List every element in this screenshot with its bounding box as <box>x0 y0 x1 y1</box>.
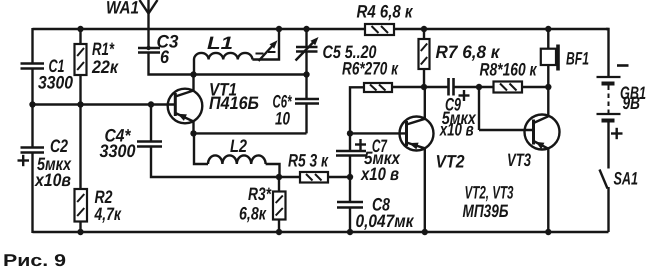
transistor VT3 <box>525 115 560 150</box>
resistor R3 <box>273 192 286 220</box>
wire C4 top lead <box>150 105 152 143</box>
wire R6 right lead / collector node line <box>392 86 449 88</box>
wire VT3 emitter lead <box>547 149 549 233</box>
label R3 6,8k <box>239 184 272 224</box>
label C8 <box>356 195 415 232</box>
inductor L1 <box>194 29 279 75</box>
capacitor C6 <box>295 75 319 134</box>
wire bottom common rail <box>33 231 609 233</box>
wire top supply rail left of R4 <box>33 28 366 30</box>
node VT1 collector <box>190 71 196 77</box>
wire R3 bottom lead <box>278 220 280 234</box>
wire C2 to bottom rail <box>31 153 33 234</box>
value C2 <box>34 154 72 190</box>
svg-text:R8*160 к: R8*160 к <box>480 60 538 80</box>
transistor VT2 <box>400 117 434 151</box>
svg-text:WA1: WA1 <box>106 0 139 18</box>
wire VT1 collector lead <box>192 75 194 91</box>
svg-text:R3*: R3* <box>248 184 272 204</box>
svg-text:0,047мк: 0,047мк <box>356 211 415 231</box>
node C5 top <box>303 26 309 32</box>
node VT2 emitter bottom <box>422 229 428 235</box>
wire R2 top lead <box>79 105 81 190</box>
svg-text:МП39Б: МП39Б <box>463 201 509 221</box>
switch SA1 <box>600 170 608 189</box>
svg-text:4,7к: 4,7к <box>94 204 122 224</box>
minus GB1 is drawn in battery group; label GB1 <box>620 83 646 113</box>
plus C9 <box>459 90 470 101</box>
L1 adjustment arrow <box>259 40 278 61</box>
wire C9 right lead <box>454 86 494 88</box>
node VT3 base top <box>476 84 482 90</box>
antenna WA1 <box>140 0 158 48</box>
wire base bias line <box>33 103 177 105</box>
resistor R8 <box>494 82 523 93</box>
svg-text:VT3: VT3 <box>507 150 531 170</box>
svg-text:VT2, VT3: VT2, VT3 <box>465 183 514 203</box>
wire R1 bottom lead <box>79 75 81 105</box>
capacitor C5 variable <box>296 29 319 75</box>
node R7 top <box>421 26 427 32</box>
capacitor C3 <box>138 48 160 53</box>
node L1 top <box>276 26 282 32</box>
wire VT1 emitter lead <box>192 122 194 134</box>
svg-text:R6*270 к: R6*270 к <box>342 59 399 79</box>
wire switch to bottom rail <box>607 187 609 232</box>
node VT1 emitter <box>190 130 196 136</box>
resistor R5 <box>300 172 328 183</box>
svg-text:3300: 3300 <box>100 141 136 161</box>
wire R6 left lead down to base node <box>350 87 364 133</box>
svg-text:х10 в: х10 в <box>360 164 399 184</box>
label C9 <box>439 95 477 140</box>
svg-text:BF1: BF1 <box>566 49 589 69</box>
capacitor C8 <box>337 202 363 208</box>
wire C1 to C2 <box>31 69 33 149</box>
plus C2 <box>18 155 30 166</box>
wire VT3 base horizontal <box>479 129 534 131</box>
svg-text:SA1: SA1 <box>614 169 639 189</box>
node R1 bottom <box>77 101 83 107</box>
svg-text:х10в: х10в <box>34 170 71 190</box>
label VT1 <box>209 79 259 113</box>
svg-text:П416Б: П416Б <box>209 93 259 113</box>
node BF1 top <box>545 26 551 32</box>
wire top supply rail right of R4 <box>394 28 609 30</box>
svg-text:22к: 22к <box>91 57 119 77</box>
svg-text:R4 6,8 к: R4 6,8 к <box>357 2 414 22</box>
node VT3 collector <box>545 84 551 90</box>
svg-text:3300: 3300 <box>38 73 73 93</box>
wire battery top lead <box>606 29 609 77</box>
wire C3 bottom lead <box>149 53 307 75</box>
capacitor C9 <box>449 78 454 96</box>
wire R1 top lead <box>79 29 81 44</box>
label R2 4,7k <box>94 187 122 224</box>
node R3 top <box>276 174 282 180</box>
node C1 bottom <box>29 101 35 107</box>
label C4 3300 <box>100 126 136 162</box>
resistor R2 <box>75 189 88 222</box>
node R1 top <box>77 26 83 32</box>
wire emitter node line <box>194 132 307 134</box>
label C6 10 <box>273 92 293 129</box>
plus C7 <box>355 139 366 150</box>
wire R5 right lead <box>328 176 350 178</box>
wire C4 bottom lead to node line <box>151 147 300 178</box>
wire C8 bottom lead <box>349 208 351 234</box>
node R5 right <box>347 174 353 180</box>
wire C7 to R5 node <box>349 156 351 178</box>
svg-text:х10 в: х10 в <box>439 119 474 139</box>
svg-text:R5 3 к: R5 3 к <box>288 151 329 171</box>
label VT2 VT3 type <box>463 183 514 222</box>
wire VT3 collector lead <box>547 87 549 116</box>
resistor R4 <box>365 24 394 35</box>
wire R2 bottom lead <box>79 222 81 234</box>
svg-text:9В: 9В <box>623 93 641 113</box>
wire R5 node to C8 <box>349 177 351 203</box>
node C4 top <box>148 101 154 107</box>
node VT2 base <box>347 130 353 136</box>
capacitor C7 <box>336 151 366 156</box>
wire VT2 emitter lead <box>424 148 426 233</box>
wire R8 right lead <box>522 86 548 88</box>
wire BF1 top lead <box>547 29 549 49</box>
svg-text:10: 10 <box>275 109 290 129</box>
capacitor C1 <box>21 64 45 69</box>
wire VT2 collector lead <box>424 87 426 119</box>
wire VT3 base drop <box>478 87 480 130</box>
resistor R7 <box>419 39 430 69</box>
node R3 bottom <box>276 229 282 235</box>
wire battery to switch <box>607 121 609 169</box>
wire R7 bottom lead <box>423 69 425 87</box>
svg-text:L2: L2 <box>230 136 247 156</box>
wire R7 top lead <box>423 29 425 39</box>
capacitor C4 <box>137 142 162 147</box>
capacitor C2 <box>21 148 45 153</box>
L1 adjustable core dashes <box>256 52 276 54</box>
inductor L2 <box>194 133 280 177</box>
svg-text:Рис. 9: Рис. 9 <box>3 251 66 270</box>
node C5 bottom <box>303 71 309 77</box>
wire left branch upper (rail to C1) <box>31 28 33 64</box>
label C3 6 <box>157 32 179 68</box>
battery GB1 <box>597 66 629 140</box>
wire R3 top lead <box>278 177 280 192</box>
wire VT2 base line <box>350 132 407 134</box>
wire BF1 bottom lead <box>547 65 549 87</box>
node C8 bottom <box>347 229 353 235</box>
svg-text:VT2: VT2 <box>436 152 465 172</box>
resistor R6 <box>364 83 392 92</box>
svg-text:6,8к: 6,8к <box>239 204 267 224</box>
svg-text:6: 6 <box>160 47 170 67</box>
node VT3 emitter bottom <box>545 229 551 235</box>
resistor R1 <box>75 44 87 75</box>
wire C7 top lead <box>349 133 351 151</box>
svg-text:L1: L1 <box>207 33 233 53</box>
earphone BF1 <box>541 45 558 71</box>
svg-text:R1*: R1* <box>92 39 115 59</box>
node R2 bottom <box>77 229 83 235</box>
label R1 22k <box>91 39 119 77</box>
node VT2 collector <box>421 84 427 90</box>
node dot on C3 top plate <box>146 46 150 50</box>
label C7 <box>360 136 401 184</box>
transistor VT1 <box>168 89 203 124</box>
svg-text:C2: C2 <box>50 136 68 156</box>
